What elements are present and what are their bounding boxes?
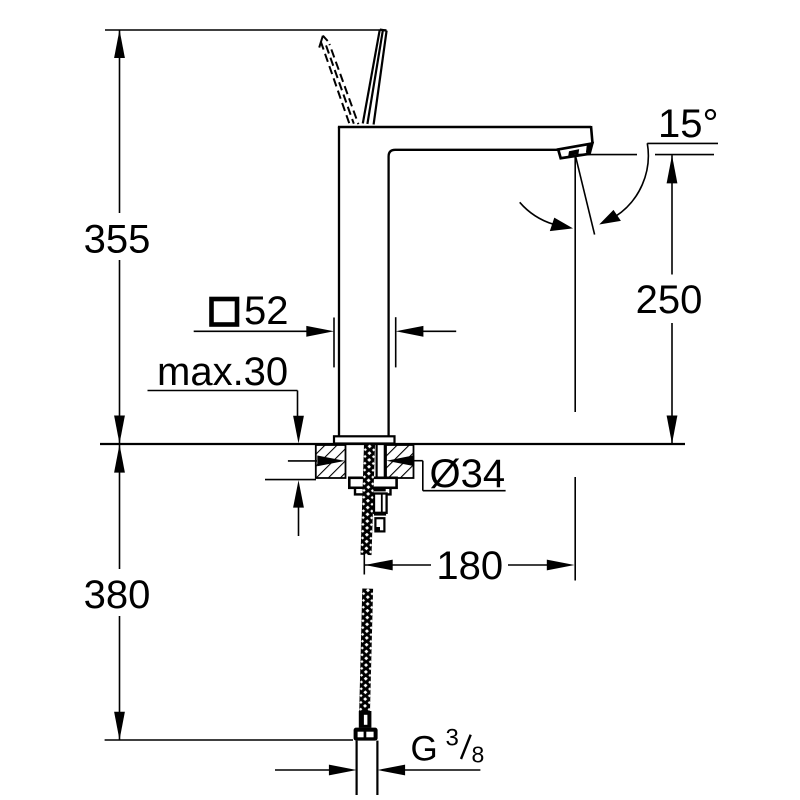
180 left arrow — [365, 560, 393, 571]
52 right arrow — [396, 326, 424, 337]
right hatched block — [386, 445, 414, 478]
svg-text:180: 180 — [436, 544, 503, 588]
svg-text:380: 380 — [84, 573, 151, 617]
svg-text:3: 3 — [446, 725, 459, 752]
svg-text:250: 250 — [636, 278, 703, 322]
swivel arc right — [615, 143, 648, 216]
vertical reference line from spout outlet — [574, 156, 576, 412]
inclined 15 degree line — [575, 156, 594, 235]
52 left arrow — [306, 326, 334, 337]
body left edge — [338, 127, 340, 436]
connector nut — [354, 728, 378, 741]
G3/8 right arrow — [377, 765, 405, 776]
svg-text:15°: 15° — [658, 102, 719, 146]
diam34 left arrow — [317, 456, 345, 467]
380 top arrow — [114, 444, 125, 472]
svg-text:355: 355 — [84, 218, 151, 262]
180 right arrow — [547, 560, 575, 571]
380 bottom arrow — [114, 712, 125, 740]
max.30 lower arrow — [293, 480, 304, 507]
spout end face — [591, 126, 593, 144]
svg-text:max.30: max.30 — [157, 350, 288, 394]
250 bottom arrow — [667, 416, 678, 444]
base flange — [334, 436, 395, 443]
arc left arrowhead — [550, 218, 573, 232]
pipe below connector — [356, 741, 358, 795]
spout level reference line — [577, 154, 637, 156]
max.30 upper arrow — [293, 416, 304, 444]
355 dimension line — [119, 30, 121, 213]
arc right arrowhead — [599, 210, 621, 225]
top edge of body and spout — [338, 126, 591, 129]
spout underside and body right edge with rounded corner — [389, 150, 559, 437]
underline of 15 — [647, 142, 718, 144]
svg-text:52: 52 — [244, 289, 289, 333]
diam34 right arrow — [387, 455, 415, 466]
top extension line — [105, 29, 386, 31]
svg-text:Ø34: Ø34 — [430, 452, 506, 496]
250 top arrow — [667, 155, 678, 183]
bottom extension line — [105, 739, 353, 741]
aerator slot bar — [568, 149, 579, 156]
aerator right dark edge — [586, 143, 592, 153]
svg-text:G: G — [411, 730, 438, 769]
dashed lever tip arrow — [319, 36, 323, 48]
355 top arrow — [114, 30, 125, 58]
G3/8 left arrow — [329, 765, 357, 776]
svg-text:8: 8 — [472, 741, 485, 767]
swivel arc left — [520, 202, 554, 224]
355 bottom arrow — [114, 416, 125, 444]
left hatched block — [316, 445, 346, 478]
